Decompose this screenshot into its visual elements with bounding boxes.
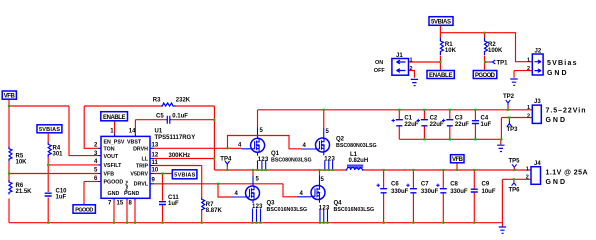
svg-text:J4: J4: [534, 161, 541, 167]
svg-text:2: 2: [527, 114, 530, 120]
svg-text:DRVL: DRVL: [134, 181, 149, 187]
svg-text:VFB: VFB: [4, 94, 16, 100]
svg-text:PGOOD: PGOOD: [475, 73, 496, 79]
svg-text:330uF: 330uF: [450, 189, 468, 195]
svg-text:TRIP: TRIP: [136, 164, 149, 170]
svg-text:100K: 100K: [488, 48, 503, 54]
svg-text:ENABLE: ENABLE: [429, 73, 453, 79]
svg-text:12: 12: [152, 153, 159, 159]
svg-text:14: 14: [129, 129, 136, 135]
svg-text:BSC016N03LSG: BSC016N03LSG: [267, 207, 308, 213]
svg-text:BSC080N03LSG: BSC080N03LSG: [336, 143, 377, 149]
svg-text:TP5: TP5: [509, 158, 521, 164]
svg-text:GND: GND: [547, 70, 567, 77]
svg-text:C8: C8: [450, 182, 458, 188]
svg-text:VFB: VFB: [452, 157, 464, 163]
svg-text:22uF: 22uF: [455, 122, 469, 128]
svg-text:R3: R3: [153, 97, 161, 103]
svg-text:2: 2: [526, 175, 529, 181]
svg-text:10K: 10K: [445, 48, 457, 54]
svg-text:300KHz: 300KHz: [169, 153, 191, 159]
svg-text:C2: C2: [430, 116, 438, 122]
svg-text:11: 11: [152, 160, 159, 166]
svg-text:PGOOD: PGOOD: [104, 180, 124, 186]
svg-text:TPS51117RGY: TPS51117RGY: [155, 135, 196, 141]
svg-text:123: 123: [258, 157, 269, 163]
svg-text:PwPd: PwPd: [124, 180, 129, 191]
svg-text:C4: C4: [481, 116, 489, 122]
svg-text:OFF: OFF: [374, 68, 386, 74]
svg-text:C5: C5: [156, 114, 164, 120]
svg-text:1uF: 1uF: [168, 201, 179, 207]
svg-text:2: 2: [410, 66, 413, 72]
svg-text:1: 1: [410, 57, 413, 63]
svg-text:VFB: VFB: [104, 172, 115, 178]
svg-text:8.87K: 8.87K: [206, 208, 223, 214]
svg-text:1: 1: [527, 57, 530, 63]
svg-text:Q2: Q2: [336, 136, 345, 142]
svg-text:C11: C11: [168, 195, 179, 201]
svg-text:BSC080N03LSG: BSC080N03LSG: [271, 158, 312, 164]
svg-text:330uF: 330uF: [391, 189, 409, 195]
svg-text:J3: J3: [534, 99, 541, 105]
svg-text:C6: C6: [391, 182, 399, 188]
svg-text:123: 123: [324, 157, 335, 163]
svg-text:DRVH: DRVH: [133, 147, 148, 153]
svg-text:5VBIAS: 5VBIAS: [39, 127, 60, 133]
svg-text:V5DRV: V5DRV: [130, 172, 148, 178]
svg-text:2: 2: [527, 66, 530, 72]
svg-text:TP1: TP1: [497, 60, 509, 66]
svg-text:21.5K: 21.5K: [16, 189, 33, 195]
svg-text:13: 13: [152, 142, 159, 148]
svg-text:15: 15: [117, 201, 124, 207]
svg-text:C10: C10: [56, 188, 68, 194]
svg-text:5VBIAS: 5VBIAS: [174, 173, 195, 179]
svg-text:330uF: 330uF: [421, 189, 439, 195]
svg-text:Q3: Q3: [267, 200, 276, 206]
svg-text:1: 1: [526, 167, 529, 173]
svg-text:TP4: TP4: [220, 156, 232, 162]
svg-text:1.1V @ 25A: 1.1V @ 25A: [546, 170, 588, 177]
svg-text:TON: TON: [104, 147, 115, 153]
svg-text:GND: GND: [546, 117, 566, 124]
svg-text:EN_PSV: EN_PSV: [104, 139, 125, 145]
svg-text:123: 123: [319, 205, 330, 211]
svg-text:22uF: 22uF: [404, 122, 418, 128]
svg-text:R7: R7: [206, 202, 214, 208]
svg-text:22uF: 22uF: [430, 122, 444, 128]
svg-text:C9: C9: [482, 182, 490, 188]
svg-text:PGOOD: PGOOD: [75, 208, 93, 214]
svg-text:7.5–22Vin: 7.5–22Vin: [546, 108, 586, 115]
svg-text:VOUT: VOUT: [104, 154, 119, 160]
svg-text:1uF: 1uF: [56, 195, 67, 201]
svg-text:GND: GND: [546, 179, 566, 186]
svg-text:0.1uF: 0.1uF: [172, 114, 188, 120]
svg-text:232K: 232K: [176, 97, 191, 103]
svg-text:VSFILT: VSFILT: [104, 163, 123, 169]
svg-text:TP2: TP2: [503, 94, 515, 100]
svg-text:1: 1: [527, 105, 530, 111]
svg-text:5VBias: 5VBias: [547, 60, 577, 67]
svg-text:C3: C3: [455, 116, 463, 122]
svg-text:Q4: Q4: [334, 200, 343, 206]
svg-text:VBST: VBST: [127, 139, 142, 145]
svg-text:10uF: 10uF: [482, 189, 496, 195]
svg-text:ON: ON: [375, 60, 383, 66]
svg-text:BSC016N03LSG: BSC016N03LSG: [334, 207, 375, 213]
svg-text:1uF: 1uF: [481, 122, 492, 128]
svg-text:GND: GND: [108, 191, 120, 197]
svg-text:J2: J2: [535, 48, 542, 54]
svg-text:TP6: TP6: [509, 187, 521, 193]
svg-text:123: 123: [252, 204, 263, 210]
svg-text:0.82uH: 0.82uH: [349, 158, 369, 164]
svg-text:U1: U1: [155, 128, 163, 134]
svg-text:TP3: TP3: [507, 127, 519, 133]
svg-text:C7: C7: [421, 182, 429, 188]
svg-text:ENABLE: ENABLE: [103, 115, 126, 121]
svg-text:LL: LL: [142, 157, 149, 163]
svg-text:J1: J1: [396, 53, 403, 59]
svg-text:C1: C1: [404, 116, 412, 122]
svg-text:Q1: Q1: [271, 151, 280, 157]
svg-text:10K: 10K: [16, 159, 28, 165]
svg-text:5VBIAS: 5VBIAS: [431, 20, 451, 26]
svg-text:10: 10: [152, 168, 159, 174]
svg-text:301: 301: [53, 151, 64, 157]
